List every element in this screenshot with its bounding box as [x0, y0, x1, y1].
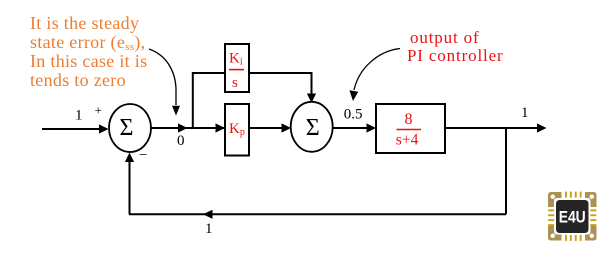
annotation: output of PI controller — [407, 28, 504, 65]
summing junction S1 — [109, 104, 151, 152]
svg-text:1: 1 — [521, 105, 529, 121]
svg-text:output of: output of — [410, 28, 480, 47]
svg-text:state error (ess),: state error (ess), — [30, 32, 145, 53]
svg-text:0: 0 — [177, 133, 185, 149]
corner bracket top-left — [548, 192, 562, 207]
pins bottom — [565, 235, 582, 241]
svg-text:1: 1 — [205, 221, 213, 237]
annotation arrow to 0.5 node — [354, 49, 400, 91]
wire: feedback up into S1 — [129, 161, 131, 214]
svg-text:PI controller: PI controller — [407, 46, 504, 65]
svg-text:It is the steady: It is the steady — [30, 13, 139, 33]
pins left — [548, 209, 554, 226]
svg-text:Σ: Σ — [120, 115, 134, 141]
pins top — [565, 192, 582, 198]
corner bracket bottom-right — [585, 226, 597, 241]
logo E4U chip — [548, 192, 597, 241]
wire: S1 output — [151, 127, 225, 129]
corner bracket bottom-left — [548, 226, 562, 241]
summing junction S2 — [291, 102, 333, 152]
svg-text:1: 1 — [75, 107, 83, 123]
wire: S2 output — [333, 127, 367, 129]
svg-text:Σ: Σ — [306, 115, 320, 141]
svg-text:In this case it is: In this case it is — [30, 51, 147, 71]
wire: Kp output — [249, 127, 282, 129]
svg-text:8: 8 — [405, 111, 413, 128]
wire: input — [42, 128, 100, 130]
chip body — [556, 200, 589, 233]
annotation arrow to node 0 — [149, 49, 176, 105]
svg-text:−: − — [139, 148, 147, 164]
block Kp — [225, 104, 249, 156]
wire: Ki output down into S2 — [249, 73, 312, 94]
svg-text:s: s — [232, 75, 238, 91]
svg-text:E4U: E4U — [559, 207, 586, 226]
block Ki/s — [225, 44, 249, 92]
wire: feedback bottom — [129, 213, 506, 215]
svg-text:0.5: 0.5 — [344, 107, 363, 123]
pins right — [590, 209, 596, 226]
wire: plant output — [445, 127, 537, 129]
wire: feedback branch down — [505, 128, 507, 214]
svg-text:s+4: s+4 — [396, 132, 419, 149]
svg-text:tends to zero: tends to zero — [30, 70, 126, 90]
wire: branch up to Ki block — [193, 73, 225, 127]
corner bracket top-right — [585, 192, 597, 207]
block plant 8/(s+4) — [376, 104, 445, 153]
svg-text:+: + — [95, 103, 102, 118]
annotation: steady state error note — [30, 13, 147, 90]
